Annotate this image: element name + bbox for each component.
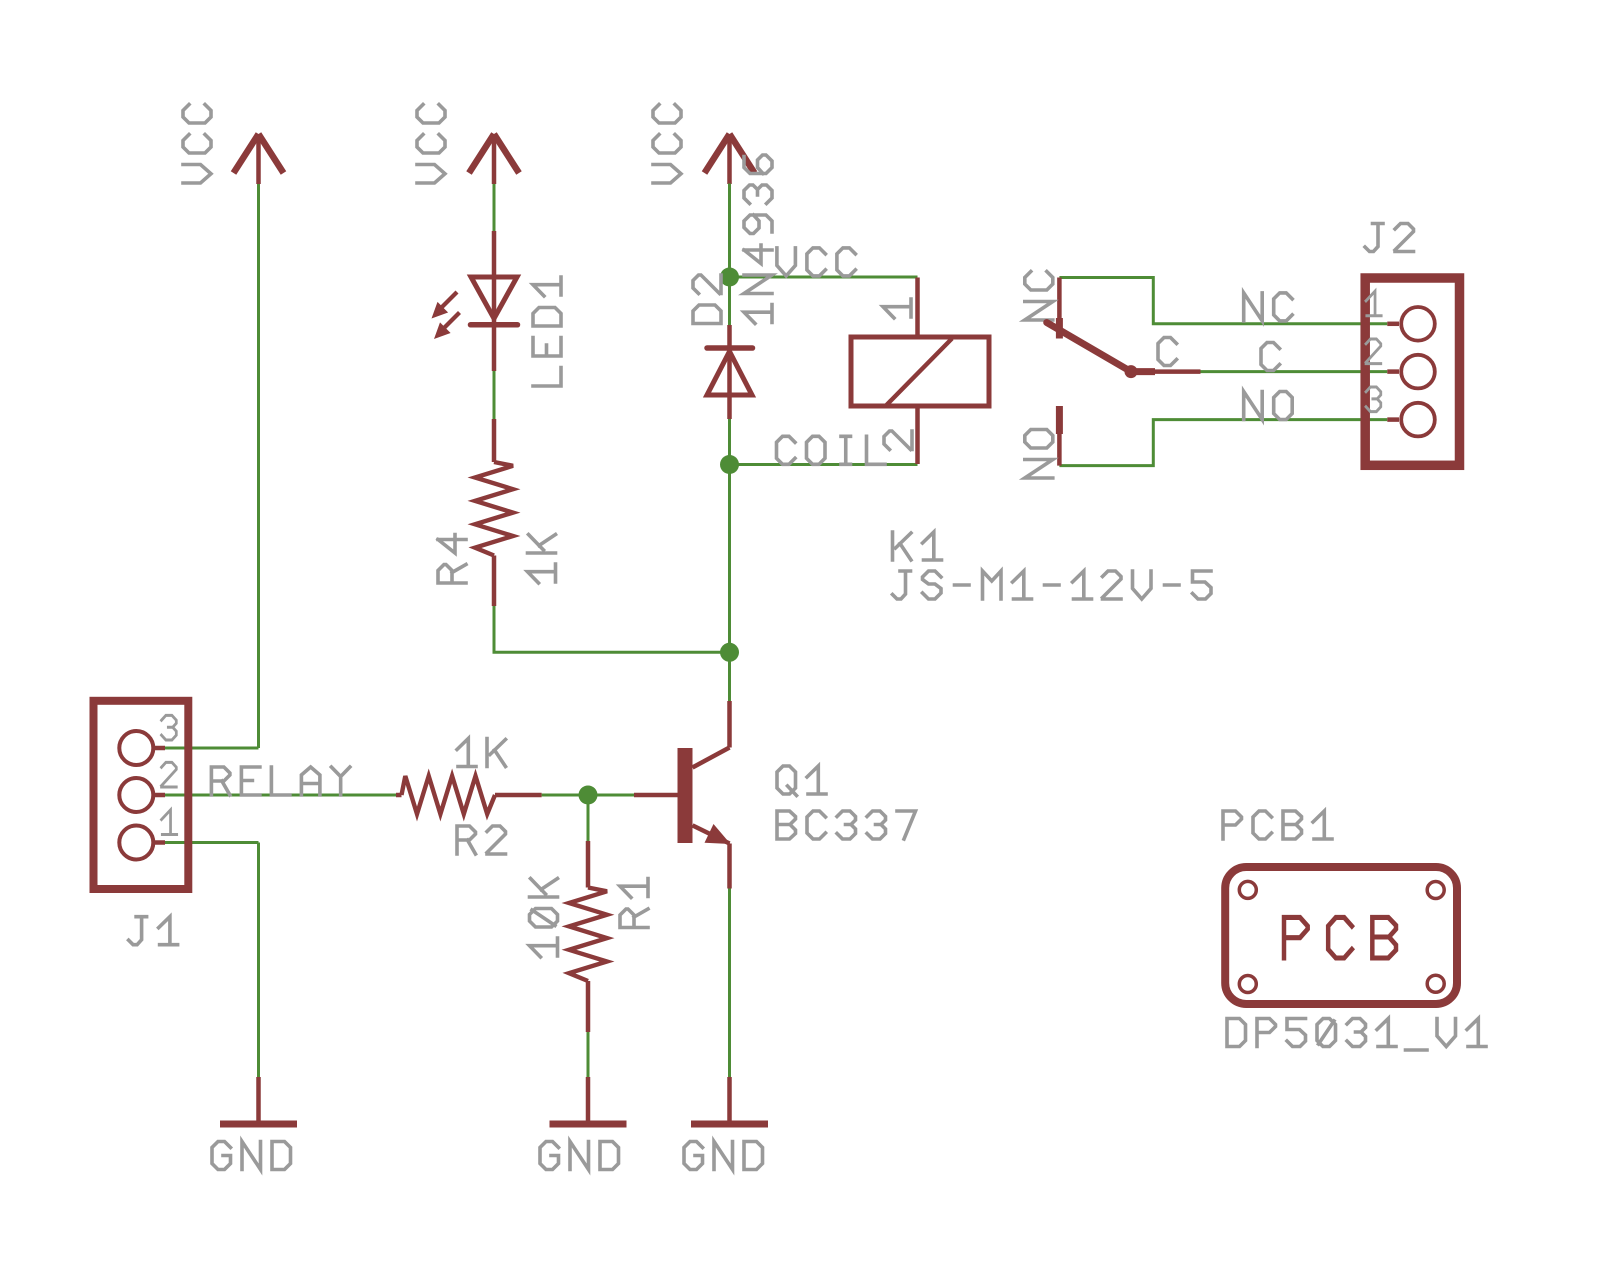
connector J2 xyxy=(1365,278,1459,465)
node collector junction xyxy=(720,643,739,662)
wire COIL node to relay coil pin 2 xyxy=(730,463,918,466)
resistor R4 1K xyxy=(492,419,497,462)
label K1 xyxy=(893,532,942,560)
J1 pin 3 xyxy=(155,746,165,751)
power symbol VCC (middle, supply for LED1) xyxy=(469,134,519,173)
PCB1 mounting hole top-left xyxy=(1239,881,1256,898)
wire J1 pin1 to GND riser xyxy=(165,841,259,844)
J1 pin 1 xyxy=(155,840,165,845)
wire relay NC contact to J2 pin 1 xyxy=(1059,278,1387,324)
node base junction R2/R1/Q1 xyxy=(579,786,598,805)
power symbol VCC (right, supply for relay coil / D2) xyxy=(705,134,755,173)
PCB1 mounting hole bottom-right xyxy=(1427,975,1444,992)
wire LED1 cathode to R4 xyxy=(493,371,496,419)
label NC (contact) xyxy=(1025,272,1053,321)
pin number 3 (J1) xyxy=(162,715,177,740)
wire Q1 emitter to GND xyxy=(728,889,731,1078)
label D2 xyxy=(693,275,721,324)
node VCC junction at D2 top xyxy=(720,268,739,287)
value 1K (R2) xyxy=(457,739,506,767)
label GND (right) xyxy=(684,1142,763,1170)
wire VCC net: left vertical from VCC arrow down to J1 pin 3 xyxy=(257,184,260,748)
relay NC contact pin xyxy=(1057,278,1062,339)
wire J1 pin3 to vertical riser xyxy=(165,747,259,750)
label PCB1 xyxy=(1223,811,1332,839)
wire D2 anode / COIL node down to Q1 collector xyxy=(728,419,731,701)
J2 pin 3 xyxy=(1387,417,1399,422)
pin label NC xyxy=(1244,293,1293,321)
pin number 1 (J2) xyxy=(1366,291,1381,316)
pin 2 of relay coil xyxy=(915,407,920,464)
pin label NO xyxy=(1244,392,1293,420)
transistor Q1 BC337 xyxy=(634,793,678,798)
pin number 3 (J2) xyxy=(1366,387,1381,412)
label GND (middle) xyxy=(540,1142,619,1170)
net label COIL xyxy=(777,436,886,464)
wire R4 bottom to collector node xyxy=(494,606,730,652)
net label VCC xyxy=(777,248,856,276)
wire VCC to LED1 anode xyxy=(493,184,496,231)
wire R2 to Q1 base xyxy=(542,794,634,797)
PCB1 mounting hole top-right xyxy=(1427,882,1444,899)
diode D2 1N4936 xyxy=(727,325,732,419)
pin number 1 (J1) xyxy=(162,810,177,835)
pin number 2 (J1) xyxy=(162,762,177,787)
ground symbol (left, J1 pin1) xyxy=(256,1077,261,1121)
board outline symbol PCB1 DP5031_V1 xyxy=(1225,867,1457,1004)
value 1K (R4) xyxy=(528,535,556,584)
J2 pin 2 xyxy=(1387,369,1399,374)
PCB1 mounting hole bottom-left xyxy=(1239,976,1256,993)
label J1 xyxy=(129,917,178,945)
pin number 1 (relay coil) xyxy=(883,299,911,318)
pin 1 of relay coil xyxy=(915,278,920,337)
relay NO contact pin xyxy=(1057,406,1062,466)
label VCC (middle) xyxy=(417,105,445,184)
net label RELAY xyxy=(211,767,350,795)
wire GND riser down from J1 pin1 xyxy=(257,843,260,1078)
node COIL junction at D2 bottom xyxy=(720,455,739,474)
value 10K (R1) xyxy=(530,879,558,958)
value 1N4936 xyxy=(744,155,772,324)
label NO (contact) xyxy=(1025,430,1053,479)
wire VCC node to relay coil pin 1 xyxy=(730,276,918,279)
pin number 2 (J2) xyxy=(1366,339,1381,364)
label J2 xyxy=(1365,224,1414,252)
power symbol VCC (left, supply for J1 pin 3) xyxy=(234,134,284,173)
ground symbol (middle, R1) xyxy=(586,1077,591,1121)
PCB text xyxy=(1284,917,1396,958)
label LED1 xyxy=(533,277,561,386)
label Q1 xyxy=(777,766,826,796)
relay switch arm (common) xyxy=(1047,323,1131,372)
label VCC (left) xyxy=(183,105,211,184)
relay coil K1 JS-M1-12V-5 xyxy=(851,337,989,406)
wire VCC down to D2 / coil node xyxy=(728,184,731,326)
wire relay NO contact to J2 pin 3 xyxy=(1059,420,1387,466)
label R1 xyxy=(620,879,648,928)
wire RELAY net: J1 pin2 to R2 xyxy=(165,794,399,797)
value DP5031_V1 xyxy=(1227,1019,1486,1051)
J2 pin 1 xyxy=(1387,322,1399,327)
label C (contact) xyxy=(1158,338,1177,366)
ground symbol (right, Q1 emitter) xyxy=(727,1077,732,1121)
label R2 xyxy=(457,826,506,854)
label R4 xyxy=(438,535,466,584)
label GND (left) xyxy=(212,1142,291,1170)
wire relay C contact to J2 pin 2 xyxy=(1201,370,1388,373)
resistor R2 1K xyxy=(396,793,402,798)
pin label C xyxy=(1261,343,1280,371)
pin number 2 (relay coil) xyxy=(884,431,912,450)
J1 pin 2 xyxy=(155,793,165,798)
wire R1 bottom to GND xyxy=(587,1032,590,1077)
wire base node down to R1 xyxy=(587,795,590,841)
Q1 emitter with arrow xyxy=(693,825,730,843)
connector J1 xyxy=(94,701,189,889)
value BC337 xyxy=(777,811,916,839)
label VCC (right) xyxy=(653,105,681,184)
LED LED1 xyxy=(492,231,497,371)
resistor R1 10K xyxy=(586,841,591,888)
Q1 collector xyxy=(693,748,730,768)
value JS-M1-12V-5 xyxy=(893,571,1212,599)
